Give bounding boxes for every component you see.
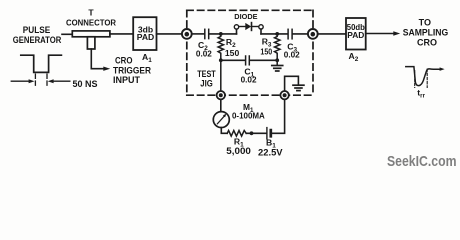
input coax connector: [182, 29, 192, 39]
svg-text:CRO: CRO: [417, 37, 437, 47]
wire battery to right feedthrough: [272, 99, 284, 133]
svg-text:PULSE: PULSE: [23, 25, 51, 35]
svg-text:0-100MA: 0-100MA: [232, 111, 265, 121]
label A1: [142, 52, 152, 64]
wire T connector to 3db pad: [110, 33, 133, 35]
main wire: C3 to output connector: [293, 33, 308, 35]
TO SAMPLING CRO label: [403, 18, 449, 48]
pulse waveform: [21, 55, 62, 72]
svg-text:GENERATOR: GENERATOR: [13, 35, 62, 45]
svg-text:TO: TO: [419, 18, 431, 28]
svg-text:CONNECTOR: CONNECTOR: [66, 17, 117, 27]
svg-text:T: T: [88, 8, 94, 18]
pulse generator label: [13, 25, 62, 45]
output coax connector: [308, 29, 318, 39]
resistor R1: [227, 131, 246, 137]
node C1 left: [219, 58, 223, 62]
dimension arrows 50 NS: [11, 80, 29, 82]
svg-text:PAD: PAD: [137, 32, 155, 42]
capacitor C3: [288, 29, 292, 39]
CRO trigger input label: [113, 56, 151, 85]
resistor R2: [218, 34, 223, 91]
node R1/B1: [250, 131, 254, 135]
svg-text:SeekIC.com: SeekIC.com: [387, 154, 457, 170]
wire feedthrough to meter: [220, 99, 222, 111]
T connector body: [72, 31, 110, 49]
waveform dashed markers: [414, 71, 416, 88]
dimension dashed ticks: [34, 74, 36, 86]
wire C1 branch right: [250, 59, 277, 61]
svg-text:150: 150: [260, 47, 272, 57]
feedthrough terminal right: [280, 91, 288, 99]
label A2: [349, 51, 359, 63]
test jig dashed enclosure: [187, 10, 313, 95]
wire output connector to 50db pad: [318, 33, 346, 35]
node R2 top: [219, 32, 223, 36]
svg-text:SAMPLING: SAMPLING: [403, 27, 449, 37]
svg-text:TRIGGER: TRIGGER: [113, 65, 151, 75]
capacitor C1: [246, 56, 250, 65]
wire 50db pad to sampling CRO: [366, 33, 394, 35]
main wire: C2 to left diode riser: [210, 33, 237, 35]
diode riser right: [260, 29, 262, 34]
svg-text:0.02: 0.02: [284, 50, 300, 59]
main wire: right riser to C3: [261, 33, 287, 35]
meter M1: [213, 112, 229, 128]
TEST JIG label: [197, 69, 216, 88]
ground under R3: [272, 66, 283, 72]
node R3 top: [275, 32, 279, 36]
node R3 bottom: [275, 58, 279, 62]
diode socket left: [234, 25, 238, 29]
attenuator 50db PAD box: [346, 18, 366, 50]
svg-text:INPUT: INPUT: [113, 75, 141, 85]
diode socket right: [259, 25, 263, 29]
attenuator 3db PAD box: [133, 17, 156, 50]
diode D under test: [239, 26, 245, 28]
feedthrough terminal left: [217, 91, 225, 99]
label trr: [417, 87, 425, 99]
CRO trigger wire: [91, 49, 103, 69]
recovery waveform: [406, 67, 441, 86]
wire pulse generator to T connector: [62, 33, 73, 35]
ground near output (battery return): [285, 76, 299, 91]
svg-text:0.02: 0.02: [241, 76, 257, 85]
svg-text:5,000: 5,000: [226, 146, 251, 156]
svg-text:50 NS: 50 NS: [73, 79, 98, 89]
battery B1: [266, 128, 268, 139]
svg-text:PAD: PAD: [347, 30, 364, 40]
svg-text:DIODE: DIODE: [234, 12, 257, 21]
capacitor C2: [205, 29, 209, 38]
wire C1 branch left: [221, 59, 245, 61]
label 50 NS: [73, 79, 98, 89]
T connector label: [66, 8, 117, 28]
svg-text:150: 150: [225, 48, 240, 58]
CRO trigger arrowhead: [103, 67, 110, 71]
wire R1 to battery: [246, 132, 266, 134]
svg-text:JIG: JIG: [200, 78, 213, 88]
svg-text:0.02: 0.02: [196, 50, 212, 59]
diode riser left: [236, 29, 238, 34]
main wire: input connector to C2: [192, 33, 204, 35]
diode label: [234, 12, 257, 21]
wire 3db pad to test jig input: [157, 33, 183, 35]
svg-text:CRO: CRO: [115, 56, 133, 66]
resistor R3: [275, 34, 280, 65]
wire meter to R1: [221, 128, 227, 134]
svg-text:22.5V: 22.5V: [258, 147, 283, 157]
